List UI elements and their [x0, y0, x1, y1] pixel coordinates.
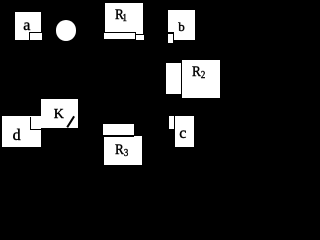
terminal stub at b : right border	[173, 32, 175, 42]
resistor R1 body	[103, 32, 136, 41]
terminal stub at a : left border	[29, 32, 30, 41]
terminal stub at b : white tab below box	[168, 39, 173, 43]
resistor R1 label text	[115, 8, 127, 24]
lamp	[56, 20, 77, 41]
resistor R3 label text	[115, 143, 128, 159]
label d	[13, 128, 21, 144]
label b	[178, 20, 185, 33]
switch K blade	[66, 116, 74, 128]
resistor R2 label box	[182, 60, 220, 98]
terminal stub at a : white nub	[41, 33, 42, 40]
terminal stub at d : left border	[30, 117, 31, 130]
label a	[23, 18, 30, 34]
resistor R1 right stub	[136, 34, 144, 40]
switch K label	[54, 108, 64, 122]
terminal stub at c	[169, 116, 175, 130]
label c	[179, 126, 186, 142]
switch K box	[41, 99, 78, 128]
resistor R3 label box	[104, 137, 142, 165]
terminal box c	[175, 116, 195, 146]
terminal box b	[168, 10, 195, 41]
terminal stub at a : top border	[29, 32, 41, 33]
terminal box d	[2, 116, 42, 147]
resistor R3 top-right step	[134, 136, 143, 138]
terminal stub at d : bottom border	[30, 129, 41, 130]
resistor R2 label text	[192, 65, 205, 81]
resistor R3 body	[103, 124, 134, 136]
terminal stub at b : top border	[168, 32, 174, 33]
terminal box a	[15, 12, 41, 41]
resistor R2 body	[165, 62, 182, 95]
resistor R1 label box	[105, 3, 144, 34]
